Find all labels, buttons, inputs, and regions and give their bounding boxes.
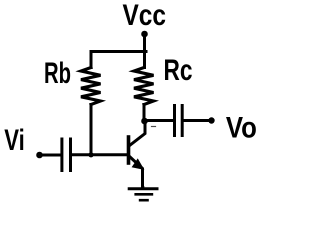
- node junction dot Rb/base: [88, 152, 93, 157]
- ground: [129, 188, 157, 201]
- svg-text:Rb: Rb: [44, 57, 71, 90]
- resistor Rc: [134, 68, 154, 105]
- transistor Q1 emitter lead: [130, 157, 143, 189]
- wire top horizontal to Rb: [91, 50, 146, 53]
- capacitor C-in left plate: [60, 139, 63, 171]
- wire base wire: [72, 153, 127, 156]
- node Vi terminal dot: [36, 152, 43, 159]
- capacitor C-in right plate: [69, 139, 72, 171]
- svg-text:Vo: Vo: [226, 112, 257, 145]
- wire Vi to input cap: [40, 154, 61, 157]
- node Vo terminal dot: [208, 117, 214, 123]
- wire Rb bottom lead: [90, 105, 93, 155]
- wire Rb top lead: [90, 52, 93, 68]
- transistor Q1 base bar: [127, 137, 131, 163]
- wire Vcc stem down: [143, 34, 146, 68]
- resistor Rb: [81, 68, 101, 105]
- node collector junction dot: [141, 118, 148, 125]
- wire output cap to Vo: [184, 119, 211, 122]
- transistor Q1 collector lead: [130, 121, 146, 146]
- wire Rc bottom lead: [143, 105, 146, 122]
- capacitor C-out left plate: [173, 106, 176, 136]
- svg-text:Rc: Rc: [164, 54, 193, 87]
- wire artifact dash: [152, 126, 156, 128]
- transistor Q1 emitter arrowhead: [133, 160, 144, 170]
- svg-text:Vcc: Vcc: [123, 0, 167, 32]
- capacitor C-out right plate: [181, 106, 184, 136]
- node Vcc terminal dot: [141, 31, 148, 38]
- svg-text:Vi: Vi: [4, 124, 25, 157]
- wire collector to output cap: [145, 119, 173, 122]
